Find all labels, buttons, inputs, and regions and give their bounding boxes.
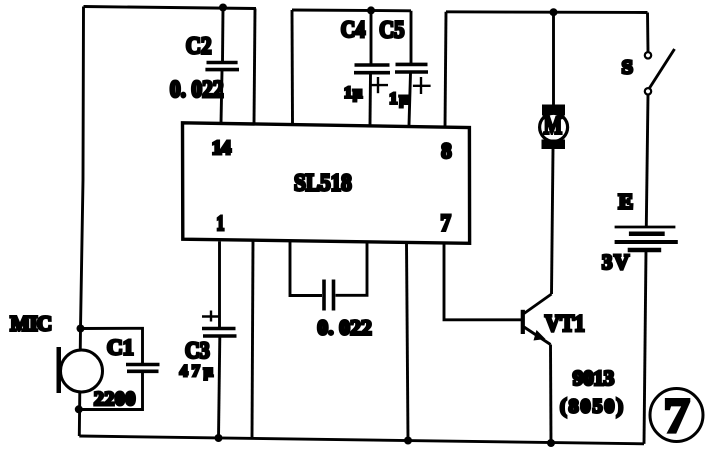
label C2	[186, 34, 212, 60]
label pin 1	[217, 211, 225, 235]
svg-text:VT1: VT1	[545, 311, 585, 336]
microphone MIC	[57, 347, 103, 393]
wire: pin 8 drop from top-right rail	[445, 12, 446, 128]
svg-text:S: S	[622, 58, 633, 79]
label C1 value 2200	[94, 388, 135, 410]
svg-text:0. 022: 0. 022	[317, 316, 371, 340]
label battery value 3V	[602, 250, 629, 274]
label C5 value 1u	[389, 90, 408, 107]
svg-text:1μ: 1μ	[389, 90, 408, 107]
op-amp IC U1 SL518 box	[183, 123, 470, 244]
label pin 8	[441, 138, 451, 163]
battery E	[615, 227, 678, 444]
svg-text:8: 8	[441, 138, 451, 163]
svg-text:47μ: 47μ	[180, 363, 213, 380]
capacitor C3	[202, 242, 237, 439]
wire: middle top rail segment	[292, 9, 411, 13]
svg-text:9013: 9013	[573, 366, 615, 390]
wire: motor to transistor collector	[552, 149, 554, 294]
transistor Q1 VT1	[523, 294, 552, 345]
svg-text:M: M	[544, 113, 562, 140]
wire: middle rail left drop to IC (x=292)	[291, 10, 294, 124]
capacitor C6 0.022 loop under IC	[290, 241, 367, 310]
svg-text:C4: C4	[341, 17, 366, 43]
wire: IC bottom drop to bottom rail (x=408)	[407, 243, 409, 441]
label S	[622, 58, 633, 79]
label E	[619, 189, 634, 213]
svg-text:(8050): (8050)	[560, 396, 623, 418]
capacitor C1	[79, 328, 160, 409]
label VT1	[545, 311, 585, 336]
wire: top-left rail segment	[84, 7, 257, 9]
svg-text:C1: C1	[107, 335, 134, 360]
svg-text:E: E	[619, 189, 634, 213]
svg-text:1μ: 1μ	[344, 85, 362, 102]
wire: top-right rail segment	[446, 10, 648, 14]
label IC name SL518	[294, 170, 352, 196]
node: junction top rail / motor branch	[550, 8, 558, 16]
node: junction left rail / C1 top	[77, 325, 85, 333]
node: junction bottom rail / 0.022 loop drop	[404, 437, 412, 445]
svg-text:1: 1	[217, 211, 225, 235]
svg-text:2200: 2200	[94, 388, 135, 410]
label MIC	[10, 311, 52, 335]
capacitor C2	[205, 8, 239, 124]
wire: IC bottom pin drop (x=253)	[252, 241, 253, 439]
label C4 value 1u	[344, 85, 362, 102]
svg-text:SL518: SL518	[294, 170, 352, 196]
label C4	[341, 17, 366, 43]
svg-text:C5: C5	[379, 18, 404, 44]
node: junction left rail / C1 bottom	[75, 405, 83, 413]
label pin 14	[212, 137, 231, 159]
capacitor C4	[354, 10, 390, 124]
svg-text:C3: C3	[185, 338, 210, 363]
label C6 value 0.022	[317, 316, 371, 340]
node: junction middle rail / C4	[367, 6, 375, 14]
wire: motor branch upper	[552, 12, 555, 105]
wire: bottom ground rail	[79, 436, 644, 444]
label C2 value 0.022	[170, 77, 224, 103]
label C1	[107, 335, 134, 360]
wire: left supply rail	[79, 7, 83, 437]
label pin 7	[441, 211, 451, 236]
label VT1 alt type (8050)	[560, 396, 623, 418]
svg-text:14: 14	[212, 137, 231, 159]
label VT1 type 9013	[573, 366, 615, 390]
wire: emitter to bottom rail	[549, 345, 552, 444]
svg-text:0. 022: 0. 022	[170, 77, 224, 103]
wire: top-left rail drop to IC pin (x=255)	[254, 9, 255, 124]
svg-text:C2: C2	[186, 34, 212, 60]
label C3 value 47u	[180, 363, 213, 380]
svg-text:MIC: MIC	[10, 311, 52, 335]
label C3	[185, 338, 210, 363]
svg-text:7: 7	[663, 388, 690, 443]
svg-text:7: 7	[441, 211, 451, 236]
label C5	[379, 18, 404, 44]
svg-text:3V: 3V	[602, 250, 629, 274]
capacitor C5	[395, 11, 431, 125]
wire: IC pin 7 to transistor base	[444, 244, 521, 320]
figure number circled 7	[650, 388, 703, 443]
node: junction bottom rail / emitter	[547, 439, 555, 447]
node: junction top rail / C2	[219, 4, 227, 12]
switch S	[645, 13, 675, 227]
node: junction bottom rail / C3	[215, 434, 223, 442]
motor M	[540, 105, 568, 150]
